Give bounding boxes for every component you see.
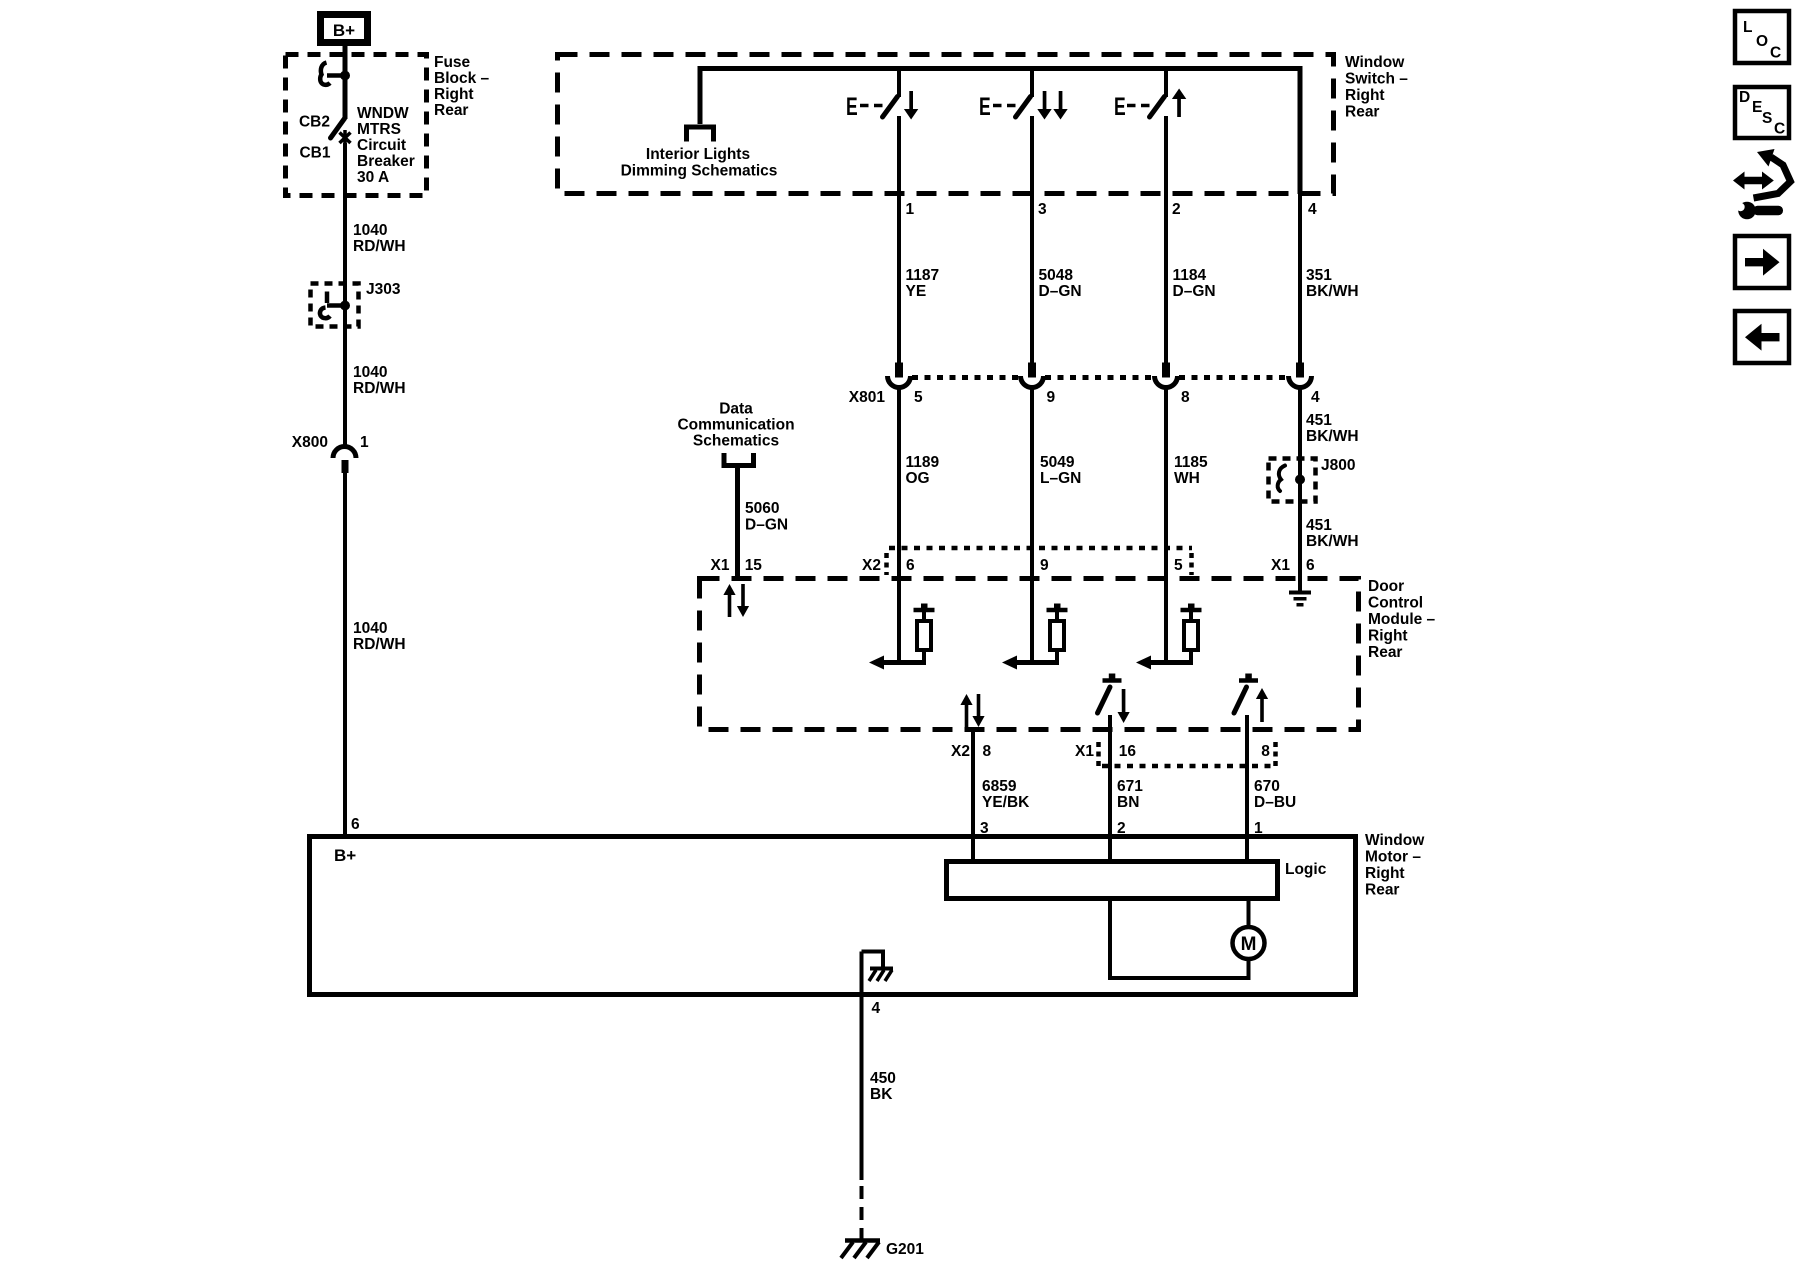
wire 1040 RD/WH breaker to J303 (343, 143, 347, 447)
switch S3 coil reference E (1114, 92, 1150, 121)
svg-text:BK/WH: BK/WH (1306, 533, 1359, 550)
svg-text:Rear: Rear (1368, 644, 1402, 661)
svg-text:X801: X801 (849, 389, 886, 406)
svg-text:X1: X1 (1075, 743, 1094, 760)
DCM pull-up resistor R1 (869, 604, 935, 670)
svg-text:YE/BK: YE/BK (982, 794, 1030, 811)
dashed wire to G201 (860, 1186, 864, 1242)
svg-text:Data: Data (719, 401, 753, 418)
svg-text:BK/WH: BK/WH (1306, 428, 1359, 445)
svg-text:9: 9 (1047, 389, 1056, 406)
svg-text:Right: Right (434, 86, 474, 103)
svg-text:1189: 1189 (906, 454, 940, 471)
connector X2 dotted tie line (889, 546, 1192, 551)
switch S1 coil reference E (846, 92, 883, 121)
svg-text:X2: X2 (951, 743, 970, 760)
svg-text:D–GN: D–GN (1039, 283, 1082, 300)
svg-text:D–GN: D–GN (1173, 283, 1216, 300)
connector X2 tick left (884, 553, 889, 575)
svg-text:Rear: Rear (1365, 882, 1399, 899)
svg-text:BN: BN (1117, 794, 1139, 811)
svg-text:1187: 1187 (906, 267, 940, 284)
arrow down S1 (904, 91, 918, 120)
svg-text:6: 6 (906, 557, 915, 574)
ground symbol inside DCM at X1 pin 6 (1289, 578, 1311, 607)
svg-text:C: C (1774, 121, 1785, 138)
switch S1 window down (883, 69, 900, 118)
svg-text:Logic: Logic (1285, 861, 1327, 878)
svg-text:5048: 5048 (1039, 267, 1074, 284)
window motor - right rear box (310, 837, 1356, 995)
svg-text:30 A: 30 A (357, 169, 389, 186)
switch S2 coil reference E (979, 92, 1016, 121)
wire bus to pin 4 (1298, 194, 1302, 363)
svg-text:Rear: Rear (1345, 104, 1379, 121)
connector X800 pin 1 (333, 447, 356, 474)
wire logic to motor top (1247, 899, 1251, 928)
svg-text:Schematics: Schematics (693, 433, 779, 450)
wire logic to motor bottom loop (1108, 899, 1251, 980)
DCM output driver switch Q2 (up) (1234, 674, 1258, 714)
svg-text:YE: YE (906, 283, 927, 300)
svg-text:16: 16 (1119, 743, 1137, 760)
svg-text:1040: 1040 (353, 620, 387, 637)
svg-text:2: 2 (1172, 201, 1181, 218)
svg-text:Door: Door (1368, 578, 1404, 595)
off-page reference data communication (724, 453, 754, 466)
svg-text:1040: 1040 (353, 222, 387, 239)
door control module - right rear dashed box (700, 579, 1359, 730)
battery positive voltage B+ (321, 15, 368, 43)
svg-text:6859: 6859 (982, 778, 1017, 795)
arrow down double S2 (1037, 91, 1067, 120)
arrow up S3 (1172, 89, 1186, 118)
svg-text:X1: X1 (1271, 557, 1290, 574)
svg-text:5: 5 (1174, 557, 1183, 574)
connector X1 tick left (1096, 742, 1101, 769)
junction node J800 (1295, 475, 1305, 485)
motor M1 (1233, 927, 1265, 959)
icon next arrow button (1735, 236, 1789, 288)
svg-text:Communication: Communication (677, 417, 794, 434)
fuse block - right rear dashed box (286, 55, 427, 196)
svg-text:L: L (1743, 19, 1752, 36)
svg-text:9: 9 (1040, 557, 1049, 574)
switch S3 window up (1150, 69, 1167, 118)
svg-text:4: 4 (872, 1000, 881, 1017)
svg-text:RD/WH: RD/WH (353, 636, 406, 653)
svg-text:451: 451 (1306, 412, 1332, 429)
logic block U1 (947, 862, 1278, 899)
svg-text:RD/WH: RD/WH (353, 238, 406, 255)
connector X1 dotted tie line bottom (1102, 764, 1276, 769)
data comm off-page wire (735, 466, 740, 578)
svg-text:8: 8 (983, 743, 992, 760)
junction node J303 (340, 301, 350, 311)
svg-text:WH: WH (1174, 470, 1200, 487)
svg-text:Right: Right (1368, 628, 1408, 645)
svg-text:4: 4 (1311, 389, 1320, 406)
connector X801 pin 8 (1155, 363, 1178, 388)
svg-text:B+: B+ (334, 846, 356, 865)
DCM output driver switch Q1 (down) (1098, 674, 1122, 714)
svg-text:C: C (1770, 45, 1781, 62)
svg-text:Switch –: Switch – (1345, 71, 1408, 88)
svg-text:1184: 1184 (1173, 267, 1207, 284)
arrow down Q1 (1118, 689, 1130, 723)
svg-text:5060: 5060 (745, 500, 779, 517)
svg-text:E: E (1114, 92, 1126, 121)
svg-text:1: 1 (906, 201, 915, 218)
svg-text:671: 671 (1117, 778, 1143, 795)
svg-text:Block –: Block – (434, 70, 490, 87)
svg-text:E: E (846, 92, 858, 121)
svg-text:B+: B+ (333, 21, 355, 40)
svg-text:5049: 5049 (1040, 454, 1075, 471)
connector X1 tick right (1273, 742, 1278, 769)
svg-text:D: D (1739, 89, 1750, 106)
svg-text:X2: X2 (862, 557, 881, 574)
connector X801 pin 9 (1021, 363, 1044, 388)
svg-text:Circuit: Circuit (357, 137, 406, 154)
DCM pull-up resistor R3 (1136, 604, 1202, 670)
svg-text:Right: Right (1365, 865, 1405, 882)
DCM input wire from X2 pin 9 (1030, 578, 1034, 665)
svg-text:Breaker: Breaker (357, 153, 415, 170)
connector X2 tick right (1189, 553, 1194, 575)
circuit breaker blade (331, 119, 345, 139)
svg-text:Dimming Schematics: Dimming Schematics (621, 163, 778, 180)
svg-text:Fuse: Fuse (434, 54, 471, 71)
svg-text:OG: OG (906, 470, 930, 487)
svg-text:6: 6 (1306, 557, 1315, 574)
svg-text:S: S (1762, 110, 1772, 127)
svg-text:J800: J800 (1321, 457, 1355, 474)
wire 450 BK motor ground (860, 952, 864, 1181)
svg-text:8: 8 (1261, 743, 1270, 760)
wire 1185 WH (1164, 388, 1168, 578)
svg-text:1040: 1040 (353, 364, 387, 381)
window switch - right rear dashed box (558, 55, 1334, 194)
svg-text:1: 1 (360, 434, 369, 451)
splice J303 hook symbol (320, 292, 345, 319)
connector X801 dotted tie line (912, 375, 1287, 380)
svg-text:Rear: Rear (434, 102, 468, 119)
svg-text:Window: Window (1365, 832, 1425, 849)
svg-text:3: 3 (1038, 201, 1047, 218)
svg-text:15: 15 (745, 557, 763, 574)
DCM input wire from X2 pin 5 (1164, 578, 1168, 665)
svg-text:8: 8 (1181, 389, 1190, 406)
wire X1 pin 16 to motor logic (1108, 715, 1112, 861)
icon back arrow button (1735, 311, 1789, 363)
svg-text:Motor –: Motor – (1365, 849, 1421, 866)
icon LOC button (1735, 11, 1789, 63)
wire 5049 L-GN (1030, 388, 1034, 578)
circuit breaker CB1/CB2 thermal hook (320, 63, 345, 85)
connector X801 pin 4 (1289, 363, 1312, 388)
icon hotspot tools (1733, 149, 1791, 219)
switch S2 window down both (1016, 69, 1033, 118)
wire 1189 OG (897, 388, 901, 578)
svg-text:E: E (1752, 99, 1762, 116)
svg-text:D–BU: D–BU (1254, 794, 1296, 811)
svg-text:L–GN: L–GN (1040, 470, 1081, 487)
serial data up/down arrows (723, 584, 749, 617)
splice J800 hook symbol (1278, 466, 1285, 492)
wire node to breaker blade (343, 76, 348, 120)
connector X801 pin 5 (888, 363, 911, 388)
icon DESC button (1735, 87, 1789, 138)
svg-text:O: O (1756, 33, 1768, 50)
svg-text:J303: J303 (366, 281, 401, 298)
wire X1 pin 8 to motor logic (1245, 715, 1249, 861)
off-page reference interior lights dimming (687, 127, 714, 142)
svg-text:G201: G201 (886, 1241, 924, 1258)
ground G201 (841, 1241, 880, 1259)
svg-text:WNDW: WNDW (357, 105, 409, 122)
svg-text:CB1: CB1 (299, 145, 330, 162)
wire switch 3 to pin 2 (1164, 116, 1168, 363)
svg-text:MTRS: MTRS (357, 121, 401, 138)
svg-text:BK: BK (870, 1086, 893, 1103)
wire X2 pin 8 to motor logic (971, 729, 975, 861)
chassis ground symbol inside motor box (862, 952, 894, 982)
wire 451 BK/WH (1298, 388, 1302, 578)
DCM output up/down arrows X2 pin 8 (960, 694, 984, 727)
splice J800 dashed box (1269, 459, 1316, 502)
svg-text:CB2: CB2 (299, 114, 330, 131)
svg-text:6: 6 (351, 816, 360, 833)
wire 1040 RD/WH X800 to window motor (343, 473, 347, 836)
splice J303 dashed box (311, 284, 359, 327)
svg-text:Interior Lights: Interior Lights (646, 146, 750, 163)
svg-text:351: 351 (1306, 267, 1332, 284)
svg-text:RD/WH: RD/WH (353, 380, 406, 397)
svg-text:451: 451 (1306, 517, 1332, 534)
svg-text:Module –: Module – (1368, 611, 1436, 628)
svg-text:X800: X800 (292, 434, 328, 451)
svg-text:5: 5 (914, 389, 923, 406)
junction node at breaker input (340, 71, 350, 81)
svg-text:4: 4 (1308, 201, 1317, 218)
svg-text:D–GN: D–GN (745, 517, 788, 534)
svg-text:X1: X1 (711, 557, 730, 574)
DCM pull-up resistor R2 (1002, 604, 1068, 670)
wire switch 1 to pin 1 (897, 116, 901, 363)
arrow up Q2 (1256, 688, 1268, 722)
bus wire inside window switch (698, 69, 1303, 195)
breaker contact star (340, 130, 351, 146)
wire switch 2 to pin 3 (1030, 116, 1034, 363)
svg-text:Window: Window (1345, 54, 1405, 71)
svg-text:450: 450 (870, 1070, 896, 1087)
wire B+ to fuse block (343, 46, 348, 76)
DCM input wire from X2 pin 6 (897, 578, 901, 665)
svg-text:670: 670 (1254, 778, 1280, 795)
svg-text:E: E (979, 92, 991, 121)
svg-text:Right: Right (1345, 87, 1385, 104)
svg-text:Control: Control (1368, 595, 1423, 612)
svg-text:BK/WH: BK/WH (1306, 283, 1359, 300)
svg-text:1185: 1185 (1174, 454, 1208, 471)
svg-text:M: M (1241, 934, 1257, 955)
